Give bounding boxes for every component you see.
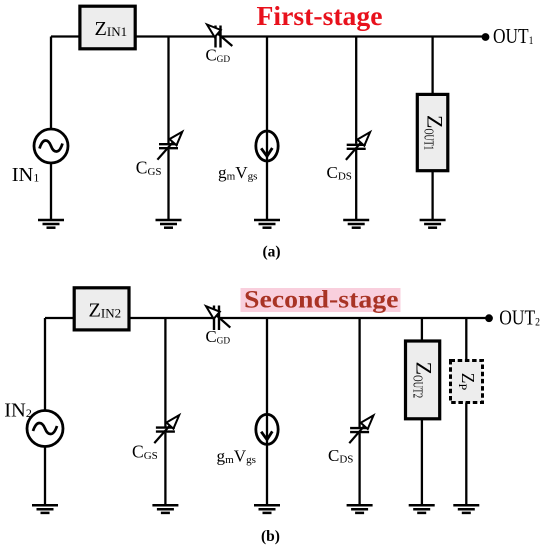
wire: CGS branch upper xyxy=(167,37,169,144)
impedance block ZIN2 xyxy=(74,288,129,330)
ground (CGS) xyxy=(156,220,182,228)
wire: CDS branch lower xyxy=(355,150,357,220)
svg-text:CGS: CGS xyxy=(132,441,158,462)
wire: ZIN2 to CGD left plate xyxy=(129,317,213,319)
svg-text:gmVgs: gmVgs xyxy=(218,163,258,183)
svg-text:CGD: CGD xyxy=(206,45,231,65)
svg-text:OUT1: OUT1 xyxy=(493,24,534,48)
current source gmVgs xyxy=(218,131,278,183)
svg-text:IN2: IN2 xyxy=(4,399,32,421)
svg-text:(b): (b) xyxy=(261,528,280,545)
svg-text:OUT2: OUT2 xyxy=(499,305,540,329)
svg-text:First-stage: First-stage xyxy=(257,0,383,31)
wire: CGS2 branch lower xyxy=(164,433,166,506)
wire: left corner to ZIN2 xyxy=(45,317,74,319)
impedance block ZIN1 xyxy=(80,6,135,49)
wire: ZOUT1 branch lower xyxy=(431,171,433,220)
ground (IN2) xyxy=(32,505,58,513)
wire: ZOUT1 branch upper xyxy=(431,37,433,95)
svg-text:(a): (a) xyxy=(262,243,280,260)
svg-text:gmVgs: gmVgs xyxy=(217,447,257,467)
node OUT1 xyxy=(482,33,490,41)
wire: ZP branch lower xyxy=(465,403,467,506)
svg-text:CDS: CDS xyxy=(327,163,352,183)
wire: left vertical down to source IN1 xyxy=(50,37,52,130)
capacitor CDS (variable) xyxy=(327,132,371,183)
svg-text:IN1: IN1 xyxy=(12,164,40,186)
current source gmVgs (second stage) xyxy=(217,414,279,466)
ground (ZOUT2) xyxy=(409,505,435,513)
wire: CGD right plate to OUT2 xyxy=(220,317,486,319)
capacitor CGS (variable) xyxy=(136,132,183,178)
wire: ZP branch upper xyxy=(465,318,467,361)
capacitor CGD (variable, series in top wire) xyxy=(206,25,233,65)
ground (CDS2) xyxy=(347,505,373,513)
wire: gmVgs branch xyxy=(266,37,268,221)
impedance block ZOUT1 xyxy=(417,94,448,170)
svg-text:CDS: CDS xyxy=(328,446,353,466)
impedance block ZP (dashed) xyxy=(451,361,483,403)
wire: source IN2 to ground xyxy=(44,447,46,506)
wire: left corner to ZIN1 xyxy=(51,35,79,37)
ground (IN1) xyxy=(38,220,64,228)
wire: CGS2 branch upper xyxy=(164,318,166,427)
wire: CGD right plate to OUT1 xyxy=(222,35,483,37)
svg-text:CGS: CGS xyxy=(136,157,162,178)
source IN1 (AC) xyxy=(34,129,68,163)
wire: gmVgs2 branch xyxy=(266,318,268,505)
wire: CGS branch lower xyxy=(167,149,169,220)
node OUT2 xyxy=(485,314,493,322)
ground (gmVgs) xyxy=(254,220,280,228)
wire: CDS2 branch upper xyxy=(358,318,360,427)
ground (gmVgs2) xyxy=(254,505,280,513)
ground (CGS2) xyxy=(152,505,178,513)
capacitor CGD (second stage, variable, series) xyxy=(206,306,231,347)
wire: source to ground xyxy=(50,163,52,220)
wire: CDS branch upper xyxy=(355,37,357,144)
wire: ZOUT2 branch upper xyxy=(421,318,423,341)
svg-text:Second-stage: Second-stage xyxy=(244,287,399,314)
wire: ZIN1 to CGD left plate xyxy=(136,35,215,37)
ground (ZOUT1) xyxy=(420,220,446,228)
wire: ZOUT2 branch lower xyxy=(421,419,423,505)
wire: left vertical down to source IN2 xyxy=(44,318,46,411)
wire: CDS2 branch lower xyxy=(358,433,360,505)
ground (CDS) xyxy=(343,220,369,228)
title Second-stage highlight xyxy=(241,288,401,312)
ground (ZP) xyxy=(453,505,479,513)
capacitor CGS (second stage, variable) xyxy=(132,415,179,462)
impedance block ZOUT2 xyxy=(406,341,440,419)
capacitor CDS (second stage, variable) xyxy=(328,415,374,465)
source IN2 (AC) xyxy=(27,411,63,447)
